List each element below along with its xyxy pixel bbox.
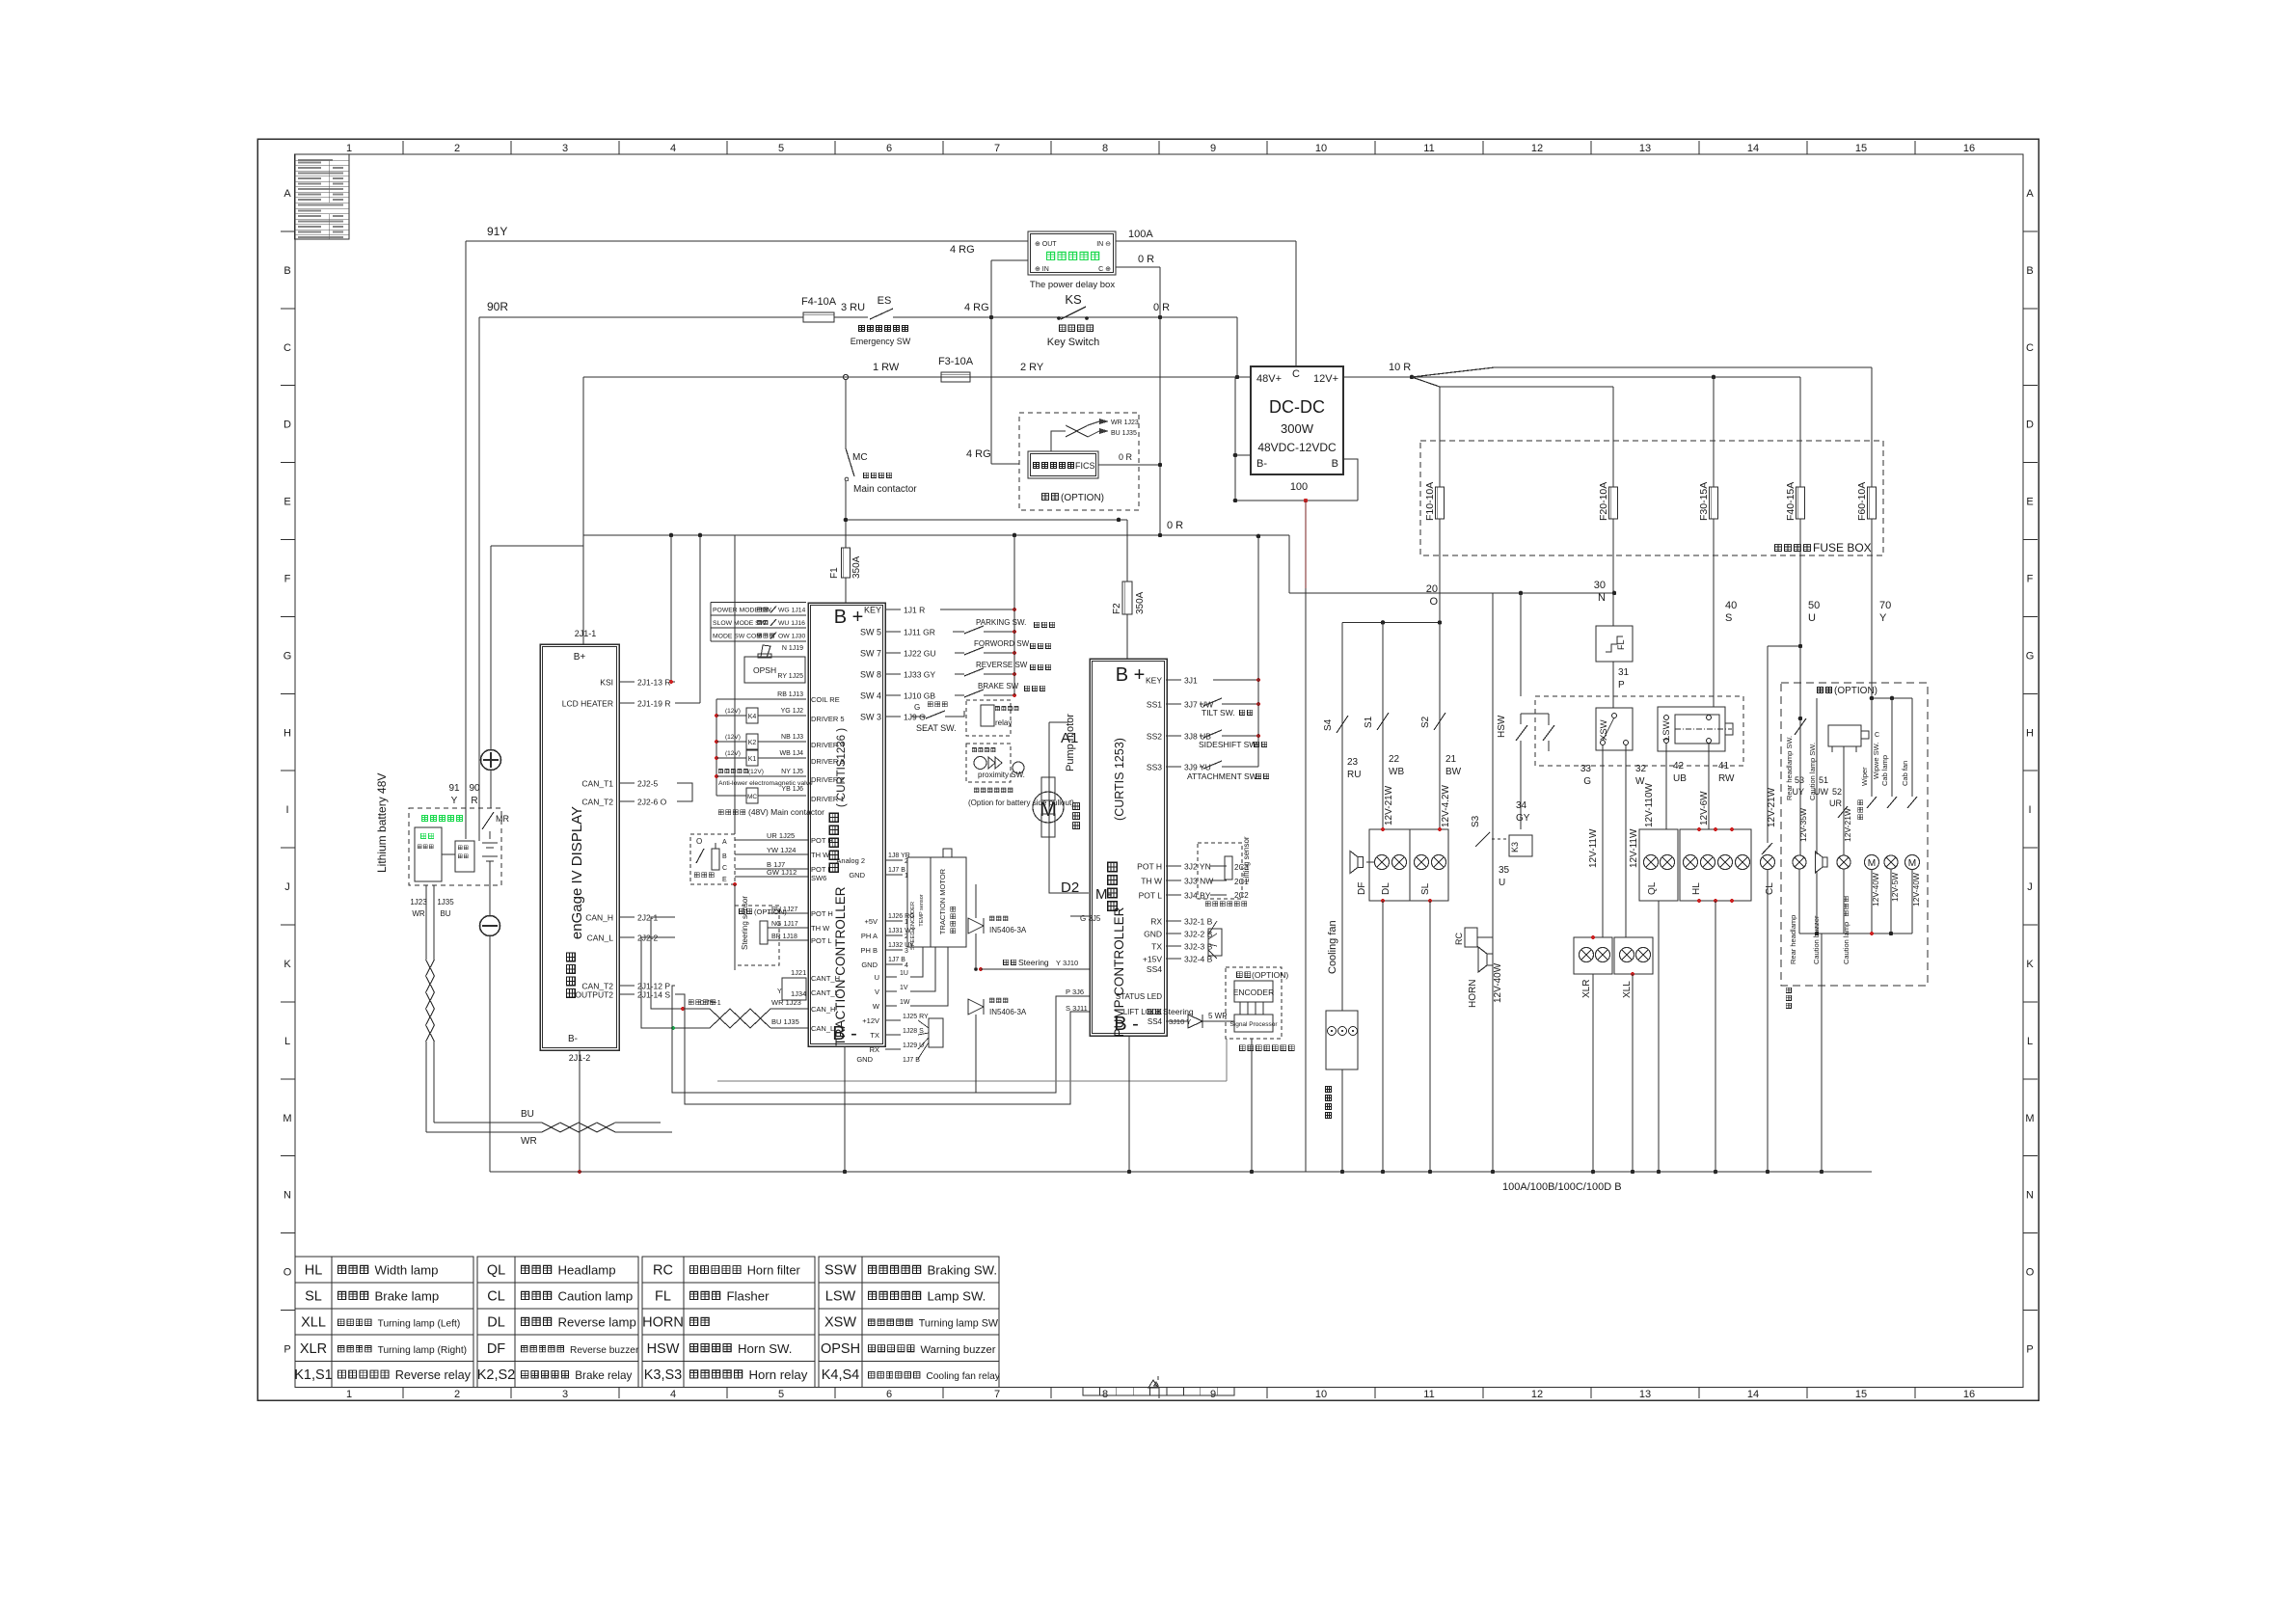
svg-text:K2: K2	[748, 740, 757, 746]
svg-text:4: 4	[670, 1389, 676, 1400]
svg-text:(12V): (12V)	[725, 708, 741, 715]
svg-text:2J2-6 O: 2J2-6 O	[637, 798, 667, 807]
svg-text:O: O	[1429, 596, 1438, 608]
svg-text:M: M	[2025, 1113, 2034, 1124]
svg-text:P: P	[2026, 1344, 2033, 1356]
svg-text:A: A	[2026, 188, 2034, 200]
svg-text:2J1-14 S: 2J1-14 S	[637, 990, 670, 1000]
svg-text:48V+: 48V+	[1256, 373, 1282, 385]
svg-text:Cooling fan: Cooling fan	[1327, 920, 1338, 974]
svg-text:1: 1	[346, 143, 352, 154]
svg-text:G 3J5: G 3J5	[1080, 914, 1101, 923]
svg-text:F: F	[2027, 574, 2034, 585]
svg-text:11: 11	[1423, 1389, 1434, 1400]
svg-text:WB: WB	[1389, 767, 1404, 777]
svg-text:41: 41	[1718, 761, 1730, 771]
svg-text:DL: DL	[487, 1315, 505, 1331]
svg-text:CANT_H: CANT_H	[811, 974, 840, 983]
svg-text:B-: B-	[1256, 458, 1267, 470]
svg-text:COIL RE: COIL RE	[811, 695, 840, 704]
svg-text:K: K	[284, 959, 291, 970]
svg-text:12V-21W: 12V-21W	[1767, 787, 1777, 827]
svg-text:DRIVER 3: DRIVER 3	[811, 757, 845, 766]
svg-text:D: D	[2026, 420, 2034, 431]
svg-text:Braking SW.: Braking SW.	[928, 1263, 998, 1278]
svg-text:GND: GND	[849, 871, 865, 880]
svg-text:12V-21W: 12V-21W	[1384, 785, 1394, 826]
svg-text:TX: TX	[1151, 942, 1162, 952]
svg-text:UY: UY	[1792, 787, 1804, 797]
svg-text:C: C	[1292, 368, 1300, 380]
svg-text:SW 4: SW 4	[860, 691, 881, 701]
svg-text:Y 3J10: Y 3J10	[1056, 959, 1078, 967]
svg-text:SS1: SS1	[1147, 700, 1162, 710]
svg-text:IN ⊖: IN ⊖	[1096, 241, 1111, 248]
svg-text:GND: GND	[856, 1055, 873, 1064]
svg-text:K1,S1: K1,S1	[294, 1367, 333, 1383]
svg-text:M: M	[1908, 858, 1916, 869]
svg-text:enGage IV DISPLAY: enGage IV DISPLAY	[569, 806, 585, 939]
svg-text:2: 2	[454, 1389, 460, 1400]
svg-text:31: 31	[1618, 667, 1630, 678]
svg-text:21: 21	[1445, 754, 1457, 765]
svg-text:Steering sensor: Steering sensor	[741, 896, 749, 950]
svg-text:RC: RC	[653, 1263, 673, 1279]
svg-text:LSW: LSW	[825, 1289, 856, 1305]
svg-text:SS4: SS4	[1148, 1017, 1163, 1026]
svg-text:LSW: LSW	[1661, 720, 1672, 741]
svg-text:1J7 B: 1J7 B	[888, 957, 905, 963]
svg-text:+5V: +5V	[864, 917, 878, 926]
svg-text:CAN_T2: CAN_T2	[581, 798, 613, 807]
svg-text:DRIVER 5: DRIVER 5	[811, 715, 845, 723]
svg-text:4: 4	[670, 143, 676, 154]
svg-text:12V+: 12V+	[1313, 373, 1338, 385]
svg-text:SSW: SSW	[824, 1263, 856, 1279]
svg-text:POT H: POT H	[811, 909, 833, 918]
svg-text:(OPTION): (OPTION)	[1834, 686, 1877, 696]
svg-text:PARKING SW.: PARKING SW.	[976, 618, 1026, 627]
svg-text:+15V: +15V	[1143, 955, 1162, 964]
svg-text:B+: B+	[574, 652, 586, 663]
svg-text:P: P	[1618, 680, 1625, 690]
svg-text:C: C	[1875, 732, 1879, 739]
svg-text:RU 1J27: RU 1J27	[771, 907, 797, 913]
svg-text:XLL: XLL	[301, 1315, 326, 1331]
svg-text:TRACTION CONTROLLER: TRACTION CONTROLLER	[833, 886, 848, 1045]
svg-text:FL: FL	[1616, 639, 1626, 650]
svg-text:XSW: XSW	[824, 1315, 856, 1331]
svg-text:SL: SL	[305, 1289, 322, 1305]
svg-text:CAN_H: CAN_H	[811, 1005, 835, 1014]
svg-text:3: 3	[562, 1389, 568, 1400]
svg-text:N 1J19: N 1J19	[782, 645, 803, 652]
svg-text:Cab lamp: Cab lamp	[1880, 755, 1889, 786]
svg-text:10: 10	[1315, 1389, 1327, 1400]
svg-text:1J7 B: 1J7 B	[903, 1057, 920, 1064]
svg-text:F60-10A: F60-10A	[1856, 482, 1868, 521]
svg-text:GND: GND	[861, 961, 878, 969]
svg-text:BRAKE SW: BRAKE SW	[978, 682, 1019, 690]
svg-text:MC: MC	[852, 452, 868, 463]
svg-text:Wipwe SW.: Wipwe SW.	[1872, 743, 1880, 779]
svg-text:Headlamp: Headlamp	[558, 1263, 616, 1278]
svg-text:FORWORD SW: FORWORD SW	[974, 639, 1030, 648]
svg-text:42: 42	[1673, 761, 1685, 771]
svg-text:G: G	[284, 650, 292, 662]
svg-text:33: 33	[1580, 764, 1592, 774]
svg-text:ATTACHMENT SW.: ATTACHMENT SW.	[1187, 771, 1259, 781]
svg-text:⊕ OUT: ⊕ OUT	[1035, 241, 1057, 248]
svg-text:KEY: KEY	[1146, 676, 1162, 686]
svg-text:CANT_L: CANT_L	[811, 988, 839, 997]
svg-text:Reverse lamp: Reverse lamp	[558, 1315, 636, 1330]
svg-text:(48V) Main contactor: (48V) Main contactor	[748, 807, 824, 817]
svg-text:(12V): (12V)	[725, 750, 741, 757]
svg-text:F30-15A: F30-15A	[1698, 482, 1710, 521]
svg-text:B-: B-	[568, 1034, 578, 1044]
svg-text:B: B	[722, 853, 727, 860]
svg-text:E: E	[2026, 497, 2033, 508]
svg-text:PUMP CONTROLLER: PUMP CONTROLLER	[1112, 907, 1126, 1037]
svg-text:POT H: POT H	[811, 836, 833, 845]
svg-text:K1: K1	[748, 756, 757, 763]
svg-text:N: N	[2026, 1190, 2034, 1202]
svg-text:POT L: POT L	[811, 865, 832, 874]
svg-text:SS4: SS4	[1147, 964, 1162, 974]
svg-text:C: C	[284, 342, 291, 354]
svg-text:22: 22	[1389, 754, 1400, 765]
svg-text:OPSH: OPSH	[753, 665, 776, 675]
svg-text:(Option for battery side pullo: (Option for battery side pullout)	[968, 798, 1074, 807]
svg-text:ES: ES	[878, 295, 892, 307]
svg-text:350A: 350A	[851, 555, 862, 579]
svg-text:91Y: 91Y	[487, 225, 507, 238]
svg-text:CAN_H: CAN_H	[585, 913, 613, 923]
svg-text:Brake relay: Brake relay	[575, 1369, 632, 1382]
svg-text:(12V): (12V)	[725, 734, 741, 741]
svg-text:2J1-1: 2J1-1	[575, 629, 597, 638]
svg-text:Horn filter: Horn filter	[747, 1264, 801, 1278]
svg-text:NB 1J3: NB 1J3	[781, 734, 803, 741]
svg-text:KEY: KEY	[864, 606, 881, 615]
svg-text:B +: B +	[1116, 664, 1146, 686]
svg-text:Signal Processor: Signal Processor	[1229, 1021, 1278, 1028]
svg-text:S 3J11: S 3J11	[1066, 1004, 1088, 1013]
svg-text:RW: RW	[1718, 773, 1735, 784]
svg-text:Main contactor: Main contactor	[853, 484, 917, 495]
svg-text:K3,S3: K3,S3	[644, 1367, 683, 1383]
svg-text:HORN: HORN	[642, 1315, 684, 1331]
svg-text:YB 1J6: YB 1J6	[781, 786, 803, 793]
svg-text:Wiper: Wiper	[1860, 767, 1869, 786]
svg-text:POWER MODE SW: POWER MODE SW	[713, 608, 771, 614]
svg-text:G: G	[1583, 776, 1591, 787]
svg-text:POT H: POT H	[1137, 862, 1162, 872]
svg-text:Caution lamp: Caution lamp	[558, 1289, 634, 1304]
svg-text:1J10 GB: 1J10 GB	[904, 691, 935, 701]
svg-text:GW 1J12: GW 1J12	[767, 868, 797, 877]
svg-text:W: W	[873, 1002, 880, 1011]
svg-text:⊕ IN: ⊕ IN	[1035, 266, 1049, 273]
svg-text:BW: BW	[1445, 767, 1462, 777]
svg-text:O: O	[696, 837, 702, 846]
svg-text:WR 1J23: WR 1J23	[771, 998, 801, 1007]
svg-text:relay: relay	[995, 718, 1012, 727]
svg-text:1W: 1W	[900, 999, 910, 1006]
svg-text:DRIVER 2: DRIVER 2	[811, 775, 845, 784]
svg-text:XLR: XLR	[1581, 980, 1592, 998]
svg-text:1 RW: 1 RW	[873, 362, 900, 373]
svg-text:SW6: SW6	[811, 874, 826, 882]
svg-text:9: 9	[1210, 1389, 1216, 1400]
svg-text:Horn relay: Horn relay	[749, 1367, 808, 1382]
svg-text:DF: DF	[487, 1341, 505, 1357]
svg-text:REVERSE SW: REVERSE SW	[976, 661, 1028, 669]
svg-text:OW 1J30: OW 1J30	[778, 634, 806, 640]
svg-text:8: 8	[1102, 1389, 1108, 1400]
svg-text:Reverse relay: Reverse relay	[395, 1368, 472, 1382]
svg-text:3J2-1 B: 3J2-1 B	[1184, 917, 1213, 927]
svg-text:15: 15	[1855, 143, 1867, 154]
svg-text:proximity SW.: proximity SW.	[978, 771, 1025, 779]
svg-text:11: 11	[1423, 143, 1434, 154]
svg-text:O: O	[284, 1267, 292, 1279]
svg-text:V: V	[875, 988, 879, 996]
svg-text:53: 53	[1795, 775, 1804, 785]
svg-text:FL: FL	[655, 1289, 671, 1305]
svg-text:S3: S3	[1471, 815, 1481, 827]
svg-text:5: 5	[778, 143, 784, 154]
svg-text:M: M	[1868, 858, 1876, 869]
svg-text:WU 1J16: WU 1J16	[778, 620, 805, 627]
svg-text:UW: UW	[1814, 787, 1828, 797]
svg-text:100A/100B/100C/100D B: 100A/100B/100C/100D B	[1502, 1181, 1622, 1193]
svg-text:SW 5: SW 5	[860, 628, 881, 637]
svg-text:U: U	[1499, 878, 1505, 888]
svg-text:F40-15A: F40-15A	[1785, 482, 1796, 521]
svg-text:S: S	[1725, 612, 1732, 624]
svg-text:R: R	[471, 796, 477, 806]
svg-text:3J1: 3J1	[1184, 676, 1198, 686]
svg-text:Reverse buzzer: Reverse buzzer	[570, 1345, 639, 1356]
svg-text:U: U	[875, 973, 879, 982]
svg-text:DL: DL	[1381, 882, 1391, 895]
svg-text:UB: UB	[1673, 773, 1687, 784]
svg-text:SL: SL	[1420, 882, 1431, 895]
svg-text:0 R: 0 R	[1153, 302, 1170, 313]
svg-text:1J35: 1J35	[437, 898, 454, 907]
svg-text:Turning lamp (Right): Turning lamp (Right)	[378, 1345, 467, 1356]
svg-text:F: F	[284, 574, 291, 585]
svg-text:MODE SW COM: MODE SW COM	[713, 634, 762, 640]
svg-text:SLOW MODE SW: SLOW MODE SW	[713, 620, 767, 627]
svg-text:6: 6	[886, 1389, 892, 1400]
svg-text:TEMP sensor: TEMP sensor	[919, 894, 925, 926]
svg-text:32: 32	[1635, 764, 1647, 774]
svg-text:7: 7	[994, 143, 1000, 154]
svg-text:3: 3	[905, 948, 908, 955]
svg-text:D: D	[284, 420, 291, 431]
svg-text:12V-110W: 12V-110W	[1644, 782, 1655, 827]
svg-text:F10-10A: F10-10A	[1424, 482, 1436, 521]
svg-text:TX: TX	[870, 1031, 879, 1040]
svg-text:CL: CL	[1765, 882, 1775, 895]
svg-text:B: B	[284, 265, 290, 277]
svg-text:WB 1J4: WB 1J4	[779, 750, 803, 757]
svg-text:3 RU: 3 RU	[841, 302, 865, 313]
svg-text:50: 50	[1808, 600, 1820, 611]
svg-text:QL: QL	[1647, 881, 1658, 895]
svg-text:FICS: FICS	[1075, 461, 1095, 471]
svg-text:L: L	[284, 1036, 290, 1047]
svg-text:P: P	[284, 1344, 290, 1356]
svg-text:HL: HL	[1691, 882, 1702, 895]
svg-text:Key Switch: Key Switch	[1047, 337, 1099, 348]
svg-text:100: 100	[1290, 481, 1308, 493]
svg-text:10 R: 10 R	[1389, 362, 1411, 373]
svg-text:KSI: KSI	[600, 678, 613, 688]
svg-text:I: I	[285, 804, 288, 816]
svg-text:100A: 100A	[1128, 229, 1153, 240]
svg-text:UR 1J25: UR 1J25	[767, 831, 795, 840]
svg-text:XLR: XLR	[300, 1341, 327, 1357]
svg-text:ENCODER: ENCODER	[1233, 988, 1275, 997]
svg-text:HL: HL	[305, 1263, 323, 1279]
svg-text:Turning lamp SW: Turning lamp SW	[919, 1318, 999, 1330]
svg-text:MR: MR	[496, 814, 509, 824]
svg-text:CAN_L: CAN_L	[587, 934, 614, 943]
svg-text:TH W: TH W	[811, 924, 830, 933]
svg-text:D2: D2	[1061, 880, 1079, 896]
svg-text:SS3: SS3	[1147, 763, 1162, 772]
svg-text:POT L: POT L	[1139, 891, 1163, 901]
svg-text:4 RG: 4 RG	[964, 302, 989, 313]
svg-text:DC-DC: DC-DC	[1269, 397, 1325, 417]
svg-text:Cab fan: Cab fan	[1901, 761, 1909, 786]
svg-text:S2: S2	[1420, 716, 1431, 728]
svg-text:STATUS LED: STATUS LED	[1116, 992, 1162, 1001]
svg-text:Brake lamp: Brake lamp	[375, 1289, 440, 1304]
svg-text:K4: K4	[748, 714, 757, 720]
svg-text:F4-10A: F4-10A	[801, 296, 837, 308]
svg-text:K: K	[2026, 959, 2034, 970]
svg-text:7: 7	[994, 1389, 1000, 1400]
svg-text:B +: B +	[834, 607, 864, 628]
svg-text:QL: QL	[487, 1263, 505, 1279]
svg-text:4: 4	[905, 962, 908, 969]
svg-text:(CURTIS 1253): (CURTIS 1253)	[1113, 738, 1126, 821]
svg-text:WR 1J23: WR 1J23	[1111, 420, 1139, 426]
svg-text:WR: WR	[412, 909, 425, 918]
svg-text:F3-10A: F3-10A	[938, 356, 974, 367]
svg-text:UR: UR	[1829, 798, 1842, 808]
svg-text:SW 8: SW 8	[860, 670, 881, 680]
svg-text:8: 8	[1102, 143, 1108, 154]
svg-text:H: H	[284, 727, 291, 739]
svg-text:1J33 GY: 1J33 GY	[904, 670, 935, 680]
svg-text:2: 2	[454, 143, 460, 154]
svg-text:13: 13	[1639, 1389, 1651, 1400]
svg-text:9: 9	[1210, 143, 1216, 154]
svg-text:70: 70	[1879, 600, 1891, 611]
svg-text:1J21: 1J21	[791, 968, 806, 977]
svg-text:1J28 S: 1J28 S	[903, 1028, 924, 1035]
svg-text:91: 91	[448, 783, 460, 794]
svg-text:12: 12	[1531, 143, 1543, 154]
svg-text:12V-35W: 12V-35W	[1798, 808, 1808, 842]
svg-text:1J34: 1J34	[791, 989, 806, 998]
svg-text:E: E	[722, 877, 727, 883]
svg-text:1J25 RY: 1J25 RY	[903, 1014, 929, 1020]
svg-text:1J22 GU: 1J22 GU	[904, 649, 936, 659]
svg-text:TH W: TH W	[1141, 877, 1162, 886]
svg-text:C ⊕: C ⊕	[1098, 266, 1111, 273]
svg-text:J: J	[284, 881, 290, 893]
svg-text:FUSE BOX: FUSE BOX	[1813, 541, 1872, 555]
svg-text:L: L	[2027, 1036, 2033, 1047]
svg-text:G: G	[2026, 650, 2035, 662]
svg-text:BU 1J35: BU 1J35	[1111, 430, 1137, 437]
svg-text:51: 51	[1819, 775, 1828, 785]
svg-text:SS2: SS2	[1147, 732, 1162, 742]
svg-text:14: 14	[1747, 143, 1759, 154]
svg-text:Y: Y	[1879, 612, 1887, 624]
svg-text:PH A: PH A	[861, 932, 878, 940]
svg-text:O: O	[2026, 1267, 2035, 1279]
svg-text:12V-4.2W: 12V-4.2W	[1441, 785, 1451, 827]
svg-text:B: B	[2026, 265, 2033, 277]
svg-text:Width lamp: Width lamp	[375, 1263, 439, 1278]
svg-text:4 RG: 4 RG	[950, 244, 975, 256]
svg-text:350A: 350A	[1135, 591, 1146, 614]
svg-text:SIDESHIFT SW.: SIDESHIFT SW.	[1199, 740, 1258, 749]
svg-text:Lithium battery 48V: Lithium battery 48V	[375, 773, 389, 873]
svg-text:2 RY: 2 RY	[1020, 362, 1044, 373]
svg-text:Flasher: Flasher	[727, 1289, 770, 1304]
svg-text:GND: GND	[1144, 930, 1162, 939]
svg-text:A: A	[284, 188, 291, 200]
svg-text:K3: K3	[1510, 842, 1520, 853]
svg-text:CAN_L: CAN_L	[811, 1024, 834, 1033]
svg-text:(OPTION): (OPTION)	[1061, 493, 1104, 503]
svg-text:A: A	[722, 839, 727, 846]
svg-text:K2,S2: K2,S2	[477, 1367, 516, 1383]
svg-text:BU: BU	[521, 1109, 534, 1120]
svg-text:1U: 1U	[900, 970, 908, 977]
svg-text:Turning lamp (Left): Turning lamp (Left)	[378, 1319, 461, 1330]
svg-text:CL: CL	[487, 1289, 505, 1305]
svg-text:Rear headlamp: Rear headlamp	[1789, 915, 1797, 964]
svg-text:NG 1J17: NG 1J17	[771, 921, 798, 928]
svg-text:12V-11W: 12V-11W	[1588, 828, 1599, 868]
svg-text:0 R: 0 R	[1138, 254, 1154, 265]
svg-text:1: 1	[346, 1389, 352, 1400]
svg-text:10: 10	[1315, 143, 1327, 154]
svg-text:HSW: HSW	[647, 1341, 680, 1357]
svg-text:(12V): (12V)	[748, 769, 764, 775]
svg-text:Lifting sensor: Lifting sensor	[1242, 836, 1251, 882]
svg-text:BU 1J35: BU 1J35	[771, 1017, 799, 1026]
svg-text:15: 15	[1855, 1389, 1867, 1400]
svg-text:CAN_T1: CAN_T1	[581, 779, 613, 789]
svg-text:3J3 NW: 3J3 NW	[1184, 877, 1213, 886]
svg-text:DRIVER 1: DRIVER 1	[811, 795, 845, 803]
svg-text:Caution lamp: Caution lamp	[1842, 922, 1850, 964]
svg-text:2J1-19 R: 2J1-19 R	[637, 699, 671, 709]
svg-text:S4: S4	[1323, 718, 1334, 731]
svg-text:0 R: 0 R	[1167, 520, 1183, 531]
